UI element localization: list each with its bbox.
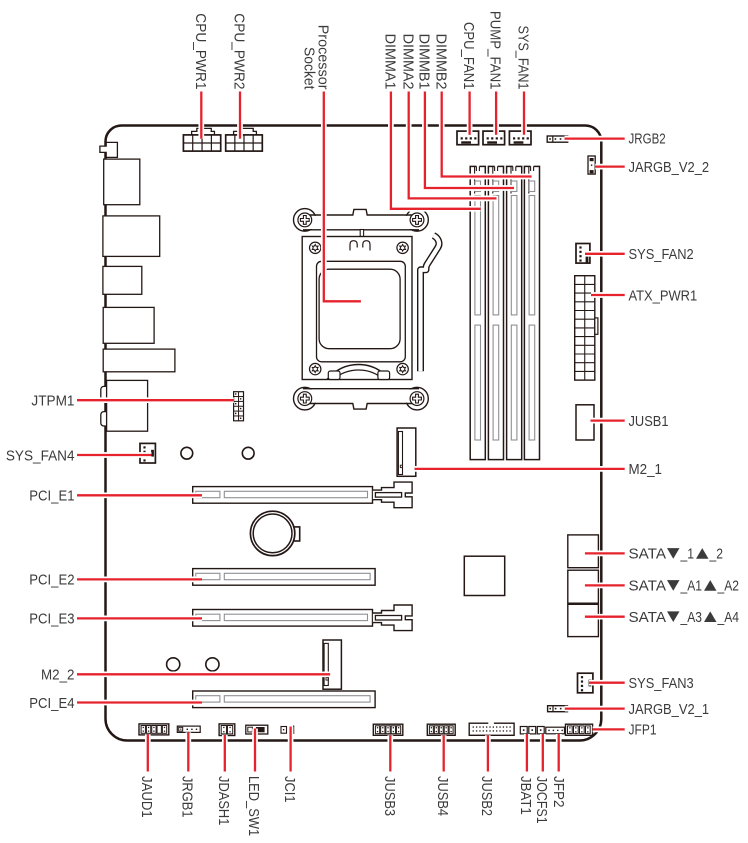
svg-text:SATA: SATA	[629, 578, 667, 595]
connector SYS_FAN4	[140, 443, 155, 463]
leader JARGB_V2_2	[595, 164, 625, 170]
svg-text:CPU_FAN1: CPU_FAN1	[460, 22, 477, 90]
svg-text:_2: _2	[709, 546, 723, 563]
svg-text:JFP1: JFP1	[629, 722, 657, 739]
connector JDASH1	[219, 724, 235, 736]
rear IO block 4	[103, 307, 154, 343]
leader JBAT1	[524, 734, 530, 772]
leader JUSB3	[387, 735, 393, 771]
leader CPU_PWR1	[198, 92, 204, 139]
svg-text:DIMMB1: DIMMB1	[416, 34, 433, 90]
leader JFP1	[593, 727, 625, 733]
socket lever	[421, 236, 440, 372]
battery BAT1	[291, 527, 300, 541]
leader JTPM1	[77, 397, 234, 403]
cpu socket top bracket	[294, 209, 317, 232]
slot PCI_E4	[193, 691, 375, 708]
connector CPU_FAN1	[457, 131, 479, 145]
switch LED_SW1	[246, 725, 268, 734]
board outline	[106, 126, 602, 741]
connector JARGB_V2_2	[588, 156, 595, 174]
leader JDASH1	[222, 735, 228, 772]
leader PUMP_FAN1	[493, 92, 499, 135]
leader SYS_FAN1	[521, 92, 527, 135]
leader SYS_FAN2	[585, 251, 625, 257]
svg-text:SATA: SATA	[629, 546, 667, 563]
svg-text:Socket: Socket	[300, 47, 317, 90]
svg-text:DIMMA1: DIMMA1	[382, 34, 399, 90]
svg-text:JOCFS1: JOCFS1	[533, 776, 550, 824]
connector JCI1	[281, 727, 287, 734]
leader JUSB2	[485, 735, 491, 771]
DIMM slots DIMMA1 DIMMA2 DIMMB1 DIMMB2	[470, 166, 485, 459]
leader M2_1	[415, 466, 625, 472]
cpu socket frame	[302, 237, 412, 380]
svg-text:CPU_PWR1: CPU_PWR1	[192, 13, 209, 89]
leader JUSB1	[591, 418, 625, 424]
leader JOCFS1	[540, 734, 546, 772]
leader ATX_PWR1	[591, 292, 625, 298]
frame clip right	[363, 241, 370, 251]
leader SATA_1_2	[585, 551, 625, 557]
torx screw frame top-right	[397, 242, 408, 253]
socket inner opening	[317, 261, 406, 362]
svg-text:SYS_FAN2: SYS_FAN2	[629, 246, 694, 263]
svg-text:_A1: _A1	[680, 578, 702, 595]
svg-text:JCI1: JCI1	[281, 776, 298, 803]
svg-text:SYS_FAN1: SYS_FAN1	[515, 26, 532, 90]
standoff hole D	[206, 658, 219, 671]
svg-text:SATA: SATA	[629, 609, 667, 626]
leader M2_2	[77, 671, 330, 677]
leader DIMMB2	[442, 92, 532, 177]
connector JTPM1	[234, 392, 244, 421]
svg-text:JFP2: JFP2	[550, 776, 567, 808]
leader JUSB4	[441, 735, 447, 771]
svg-text:JRGB2: JRGB2	[629, 131, 666, 148]
svg-text:PCI_E1: PCI_E1	[29, 488, 74, 505]
rear IO block 1	[104, 159, 140, 205]
svg-text:PCI_E3: PCI_E3	[29, 611, 74, 628]
cpu socket bottom bracket	[294, 387, 317, 410]
connector JRGB2	[547, 136, 568, 142]
rear IO block 5	[103, 349, 175, 372]
svg-text:JDASH1: JDASH1	[215, 776, 232, 825]
frame clip left	[350, 241, 357, 251]
leader DIMMB1	[425, 92, 514, 189]
connector SATA_1_2	[568, 535, 599, 568]
leader SYS_FAN4	[77, 452, 152, 458]
leader SATA_A1_A2	[585, 583, 625, 589]
connector SYS_FAN3	[578, 673, 593, 693]
svg-text:_1: _1	[680, 546, 694, 563]
connector SYS_FAN1	[509, 131, 531, 145]
connector JRGB1	[177, 726, 200, 732]
svg-text:ATX_PWR1: ATX_PWR1	[629, 287, 698, 304]
leader DIMMA1	[391, 92, 481, 209]
svg-text:JTPM1: JTPM1	[31, 393, 74, 410]
svg-text:DIMMB2: DIMMB2	[432, 34, 449, 90]
svg-text:PUMP_FAN1: PUMP_FAN1	[487, 11, 504, 90]
svg-text:JUSB3: JUSB3	[381, 776, 398, 816]
svg-text:JUSB1: JUSB1	[629, 413, 669, 430]
leader PCI_E3	[77, 616, 202, 622]
leader SYS_FAN3	[589, 680, 625, 686]
leader JFP2	[556, 734, 562, 772]
chipset	[464, 556, 504, 595]
cpu	[319, 269, 400, 349]
svg-text:_A3: _A3	[680, 609, 702, 626]
leader JAUD1	[145, 735, 151, 772]
connector M2_1	[397, 428, 416, 476]
svg-text:M2_1: M2_1	[629, 461, 663, 478]
leader JCI1	[288, 727, 294, 772]
leader PCI_E2	[77, 577, 202, 583]
svg-text:JARGB_V2_1: JARGB_V2_1	[629, 701, 710, 718]
connector M2_2	[323, 640, 341, 689]
svg-text:DIMMA2: DIMMA2	[399, 34, 416, 90]
connector JFP1	[566, 724, 593, 735]
leader PCI_E1	[77, 492, 202, 498]
connector JUSB1	[576, 405, 594, 440]
svg-text:JUSB4: JUSB4	[434, 776, 451, 816]
connector SATA_A3_A4	[568, 604, 599, 636]
leader PCI_E4	[77, 700, 202, 706]
svg-text:JUSB2: JUSB2	[478, 776, 495, 816]
svg-text:PCI_E2: PCI_E2	[29, 572, 74, 589]
svg-text:LED_SW1: LED_SW1	[245, 776, 262, 836]
connector SYS_FAN2	[576, 244, 590, 264]
standoff hole C	[167, 658, 180, 671]
connector CPU_PWR2	[234, 128, 257, 135]
svg-text:JBAT1: JBAT1	[517, 776, 534, 815]
leader JRGB2	[565, 136, 625, 142]
connector ATX_PWR1	[575, 276, 595, 380]
rear IO block 2	[103, 216, 160, 257]
svg-text:JARGB_V2_2: JARGB_V2_2	[629, 159, 710, 176]
leader JARGB_V2_1	[565, 706, 625, 712]
svg-text:SYS_FAN4: SYS_FAN4	[6, 447, 75, 464]
connector JBAT1	[520, 727, 527, 734]
svg-text:M2_2: M2_2	[41, 667, 75, 684]
connector JARGB_V2_1	[548, 706, 568, 712]
svg-text:_A4: _A4	[717, 609, 739, 626]
connector JUSB4	[427, 724, 455, 735]
connector JAUD1	[139, 724, 169, 735]
rear IO audio block	[101, 386, 109, 400]
slot PCI_E2	[193, 569, 375, 586]
socket bottom bow spring	[327, 365, 390, 380]
leader CPU_PWR2	[237, 92, 243, 139]
svg-text:_A2: _A2	[717, 578, 739, 595]
leader JRGB1	[185, 732, 191, 771]
connector CPU_PWR1	[192, 128, 215, 135]
connector JUSB2	[469, 723, 514, 735]
torx screw frame top-left	[310, 242, 321, 253]
standoff hole B	[242, 447, 254, 459]
leader SATA_A3_A4	[585, 614, 625, 620]
torx screw frame bottom-right	[397, 363, 408, 374]
leader DIMMA2	[409, 92, 497, 199]
connector JOCFS1	[537, 727, 544, 734]
connector PUMP_FAN1	[483, 131, 505, 145]
svg-text:SYS_FAN3: SYS_FAN3	[629, 675, 694, 692]
slot PCI_E1	[193, 487, 373, 504]
svg-text:JAUD1: JAUD1	[138, 776, 155, 818]
rear IO tab top-left	[100, 142, 118, 157]
socket key tab	[360, 230, 363, 237]
leader Processor Socket	[324, 92, 361, 302]
torx screw frame bottom-left	[310, 363, 321, 374]
rear IO block 3	[103, 266, 142, 294]
leader CPU_FAN1	[467, 92, 473, 135]
svg-text:JRGB1: JRGB1	[179, 776, 196, 818]
leader LED_SW1	[252, 729, 258, 772]
svg-text:PCI_E4: PCI_E4	[29, 695, 74, 712]
connector JFP2	[546, 727, 565, 734]
svg-text:CPU_PWR2: CPU_PWR2	[231, 13, 248, 89]
slot PCI_E3	[193, 610, 373, 627]
standoff hole A	[181, 447, 193, 459]
connector SATA_A1_A2	[568, 570, 599, 603]
connector JUSB3	[373, 724, 403, 735]
